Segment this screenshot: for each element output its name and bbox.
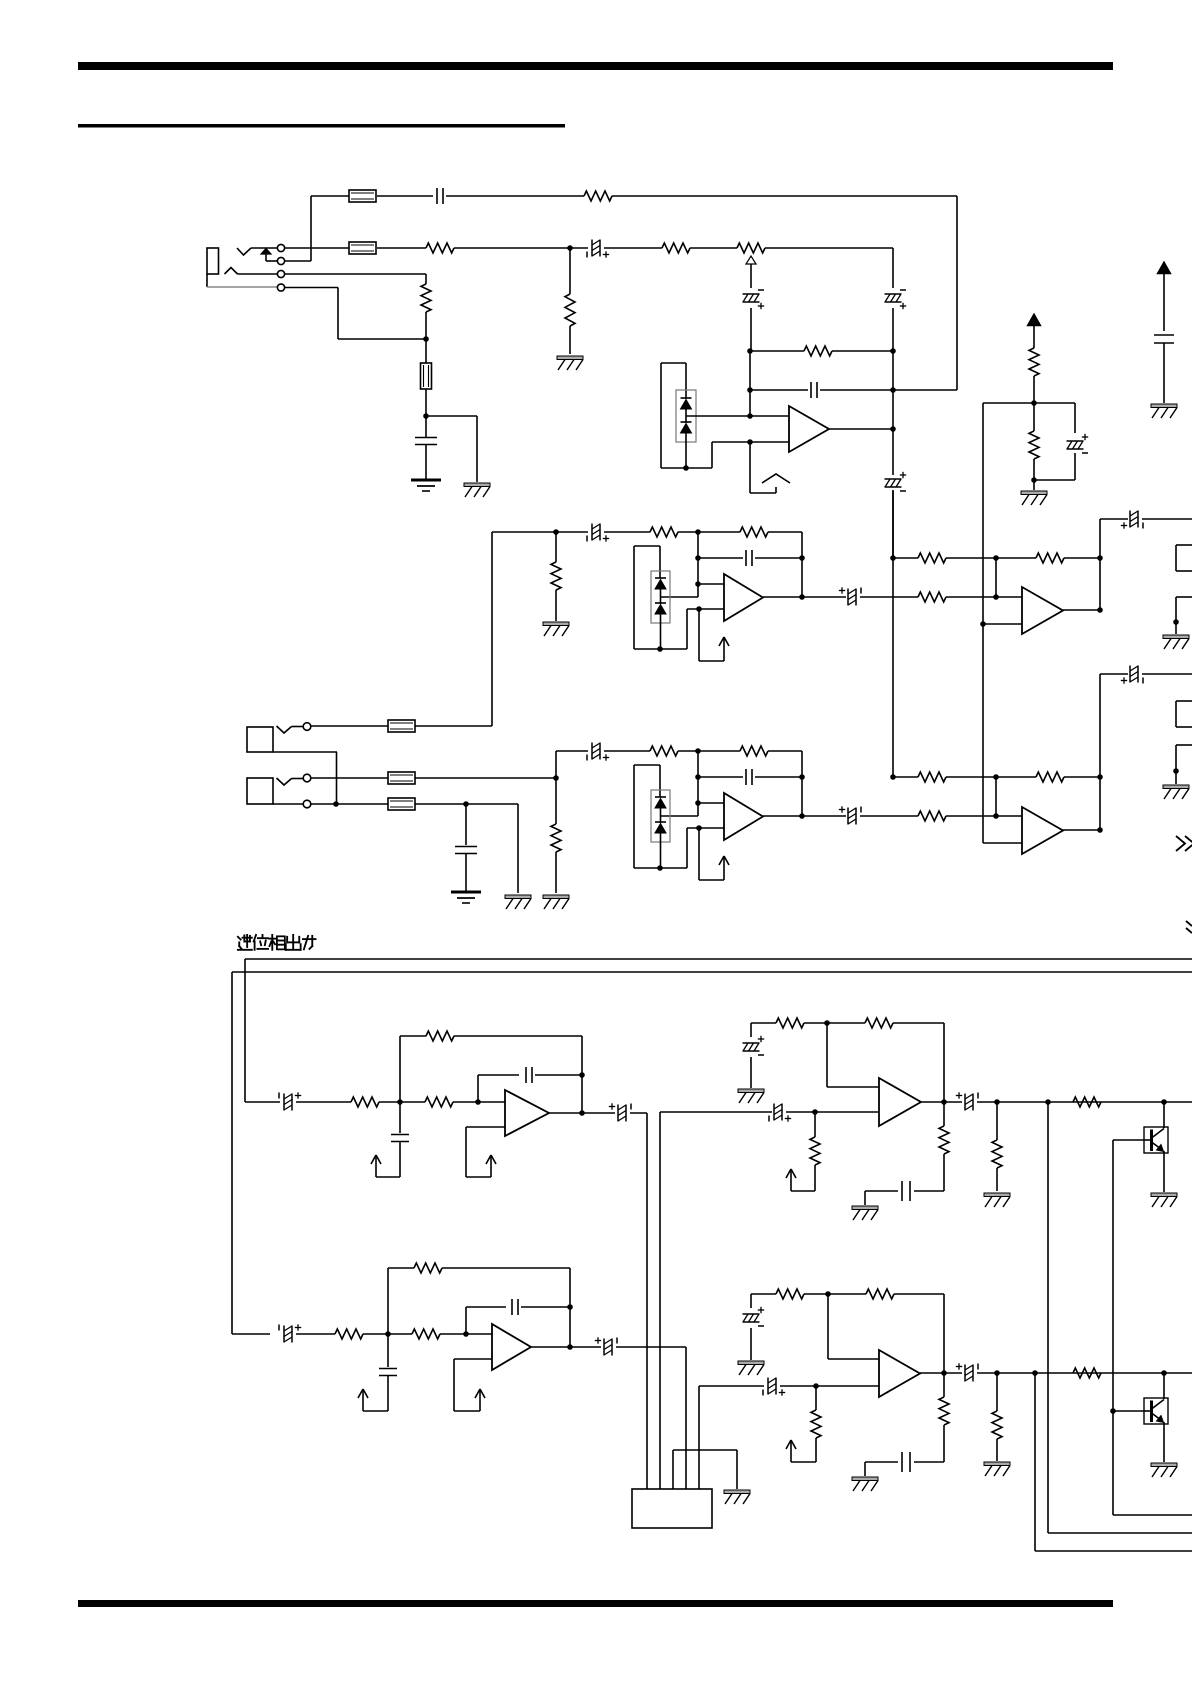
wire to right drop [612,195,957,197]
UL non-inverting wire [466,1126,505,1128]
stage2 op-amp [724,574,763,621]
resistor R4 to ground [569,248,571,294]
J1 terminal 2 [277,257,284,264]
mixerB op-amp U5 [1022,807,1063,854]
LL series resistor [412,1329,440,1339]
LR inverting input [827,1294,829,1359]
off-page chevrons [1176,836,1185,851]
shunt resistor [814,1112,816,1137]
node [333,801,339,807]
stage3 input resistor [650,746,678,756]
LR load resistor 1 [943,1373,945,1397]
node [813,1383,819,1389]
wire J1 t2 to upper row [285,260,311,262]
UR series resistor [1073,1097,1101,1107]
J3 tip lever [277,778,292,785]
stage3 diode tap [660,815,698,817]
UL op-amp U6 [505,1090,549,1136]
mute transistor Q1 [1163,1102,1165,1128]
node [1161,1099,1167,1105]
chassis ground [984,1193,1010,1197]
stage3 non-inverting input [696,825,702,831]
node [825,1291,831,1297]
node [890,774,896,780]
node [695,748,701,754]
node [553,529,559,535]
LL output capacitor (electrolytic) [603,1339,605,1356]
stage2 diode a [655,577,666,579]
capacitor C3 [425,416,427,437]
UL feedback capacitor [477,1075,479,1102]
node [1031,400,1037,406]
wire [604,247,662,249]
wire J1 t4 [285,287,338,289]
diode D2 [681,421,692,423]
UR output [921,1101,962,1103]
J1 tip switch arrow [261,249,271,255]
ground [557,356,583,360]
wire drop from VR1 corner [892,248,894,288]
UL output capacitor (electrolytic) [617,1105,619,1122]
UR op-amp U7 [879,1078,921,1126]
chassis ground [464,483,490,487]
J1 tip contact lever [237,248,251,255]
UR inverting input [826,1023,828,1087]
wire to connector pin 4 [685,1347,687,1489]
wire connector pin 2 riser [659,1112,661,1489]
edge ground stub 1 [1176,596,1192,598]
node [423,336,429,342]
ferrite bead FB6 [388,798,415,810]
chassis ground [852,1477,878,1481]
earth ground [411,479,441,482]
stage2 shunt resistor [555,532,557,562]
LL output [531,1346,601,1348]
J2 tip lever [277,726,292,733]
J1 terminal 1 [277,244,284,251]
left output capacitor (electrolytic) [1100,518,1128,520]
UL output [549,1112,615,1114]
wire [690,247,737,249]
stage2 input wire [492,531,588,533]
reference arrow [375,1155,377,1177]
connector CN1 [632,1489,712,1528]
node [553,775,559,781]
node [1161,1370,1167,1376]
wire [446,195,584,197]
node [1097,774,1103,780]
ferrite bead FB2 [349,242,376,254]
capacitor C2 (electrolytic) [591,240,593,257]
chassis ground [738,1089,764,1093]
ferrite bead FB1 [349,190,376,202]
J1 ring contact lever [225,268,238,275]
node [994,1370,1000,1376]
edge connector stub 1 [1176,544,1192,546]
non-inverting input wire [747,439,753,445]
LR op-amp U9 [879,1350,920,1397]
mixerB output [1063,829,1100,831]
feedback resistor R6 [747,348,753,354]
LR bias capacitor (electrolytic) [750,1294,752,1308]
node [463,801,469,807]
bypass capacitor C8 (electrolytic) [1034,402,1075,404]
wire J1 t3 [285,273,426,275]
shunt resistor [815,1386,817,1410]
chassis ground [738,1361,764,1365]
node [994,1099,1000,1105]
node [579,1072,585,1078]
wire [801,751,803,816]
input jack J3 body [247,778,273,804]
node [993,774,999,780]
wire [377,195,433,197]
wire [517,804,519,893]
capacitor C4 (electrolytic) [885,293,902,295]
stage2 inverting input [695,581,701,587]
wire [311,777,388,779]
mixerB second input resistor Rb3 [918,811,946,821]
J2 terminal 1 [303,723,311,731]
mixerA second input resistor Ra3 [918,592,946,602]
stage3 inverting input [695,800,701,806]
node [812,1109,818,1115]
coupling capacitor (electrolytic) [767,1378,769,1395]
stage3 diode limiter loop [634,764,660,766]
resistor R3 [662,243,690,253]
UL series resistor [425,1097,453,1107]
mute control line [1113,1139,1144,1141]
node [1097,555,1103,561]
off-page chevron fragment [1186,921,1192,926]
wire [415,803,518,805]
page top rule (thick) [78,62,1113,70]
mixerA input resistor Ra1 [893,557,918,559]
stage2 feedback resistor [740,527,768,537]
wire diode tap to inverting input [686,415,750,417]
node [890,426,896,432]
chassis ground [984,1462,1010,1466]
LL feedback resistor [387,1268,389,1334]
wire to connector pin 1 [646,1113,648,1489]
LL input capacitor (electrolytic) [232,1333,270,1335]
input jack J1 body [207,248,219,274]
resistor R5 [421,284,431,312]
stage2 output [763,596,846,598]
wire [749,390,751,416]
node [475,1099,481,1105]
ground [1021,491,1047,495]
node [397,1099,403,1105]
stage3 diode a [655,796,666,798]
node [1031,477,1037,483]
reference arrow [490,1155,492,1177]
LR output capacitor (electrolytic) [964,1365,966,1382]
supply arrow [1028,314,1041,326]
LR feedback resistor 1 [751,1293,776,1295]
earth ground [451,891,481,894]
stage2 non-inverting input [696,606,702,612]
wire [415,777,556,779]
VR1 wiper cap C5 [750,264,752,288]
wire up to stage 2 [415,725,492,727]
reference arrow [479,1389,481,1411]
chassis ground [1151,1193,1177,1197]
J1 terminal 3 [277,270,284,277]
stage3 output [763,815,846,817]
diode limiter D1/D2 loop [661,362,686,364]
resistor R1 [584,191,612,201]
capacitor C10 [465,804,467,845]
stage3 op-amp [724,793,763,840]
mixerA non-inverting input [980,621,986,627]
wire J2 sleeve link [273,751,337,753]
chassis ground [505,895,531,899]
node [747,413,753,419]
label: inverted-phase output (kanji) [238,935,316,950]
stage2 input resistor [650,527,678,537]
UR zobel capacitor [914,1190,944,1192]
wire [425,339,427,363]
bias rail vertical [982,403,984,843]
stage3 diode b [655,821,666,823]
chassis ground [852,1206,878,1210]
resistor R2 [426,243,454,253]
stage2 input capacitor (electrolytic) [591,524,593,541]
node [463,1331,469,1337]
wire drop to feedback cap row [956,196,958,390]
edge connector stub 2 [1176,700,1192,702]
stage2 output capacitor (electrolytic) [847,589,849,606]
inverted feed line B [232,971,1192,973]
stage2 diode limiter loop [634,545,660,547]
node [824,1020,830,1026]
stage3 reference arrow [698,828,700,880]
stage3 input capacitor (electrolytic) [591,743,593,760]
wire [311,803,388,805]
mute transistor Q2 [1113,1410,1144,1412]
wire connector pin 5 riser [698,1386,700,1489]
section title underline [78,124,565,128]
wire to corner [765,247,893,249]
capacitor C1 [436,188,438,204]
LL feedback capacitor [465,1307,467,1334]
UR load resistor 2 [996,1102,998,1140]
node [890,555,896,561]
wire [311,195,349,197]
supply arrow 2 [1158,262,1171,274]
wire [749,351,751,390]
potentiometer VR1 [737,243,765,253]
mixerA feedback resistor Ra2 [996,557,1036,559]
ferrite bead FB3 [421,363,432,389]
stage2 reference arrow [698,609,700,661]
output capacitor C7 (electrolytic) [892,429,894,475]
page bottom rule (thick) [78,1600,1113,1607]
node [695,529,701,535]
node [1045,1099,1051,1105]
chassis ground [724,1490,750,1494]
LL shunt capacitor [387,1334,389,1367]
mixerA output [1063,609,1100,611]
op-amp U1 [789,406,829,452]
inverted feed line A [245,958,1192,960]
wire [604,750,650,752]
reference arrow [790,1169,792,1191]
chassis ground [543,622,569,626]
diode D1 [681,397,692,399]
LR zobel capacitor [914,1461,944,1463]
UR feedback resistor 2 [865,1018,893,1028]
output line L drop [1047,1102,1049,1533]
node [1032,1370,1038,1376]
right output capacitor (electrolytic) [1100,673,1128,675]
stage2 diode b [655,602,666,604]
stage3 input riser [555,751,557,778]
resistor R7 [1029,348,1039,376]
stage3 feedback capacitor [695,774,701,780]
J1 terminal 4 [277,284,284,291]
UR load resistor 1 [943,1102,945,1126]
node [567,1304,573,1310]
stage3 shunt resistor [555,778,557,824]
UR feedback resistor 1 [751,1022,776,1024]
reference arrow [790,1440,792,1462]
chassis ground [1151,1463,1177,1467]
reference arrow [362,1389,364,1411]
chassis ground [543,895,569,899]
input jack J2 body [247,727,273,752]
edge ground stub 2 [1176,744,1192,746]
J3 terminal 2 [303,800,311,808]
LR load resistor 2 [996,1373,998,1411]
wire [604,531,650,533]
LR feedback resistor 2 [866,1289,894,1299]
LR output [920,1372,962,1374]
feedback capacitor C6 [747,387,753,393]
stage3 feedback resistor [740,746,768,756]
capacitor C9 [1154,334,1174,336]
wire to chassis ground [426,415,477,417]
node [993,555,999,561]
node [993,594,999,600]
reference symbol [749,442,751,493]
ground [1151,404,1177,408]
wire [377,247,426,249]
node [385,1331,391,1337]
output line R drop [1034,1373,1036,1551]
LR series resistor [1073,1368,1101,1378]
node [993,813,999,819]
mixerA op-amp U4 [1022,587,1063,634]
UL shunt capacitor [399,1102,401,1133]
UL feedback resistor [399,1036,401,1102]
wire [311,725,388,727]
wire [454,247,588,249]
stage3 output capacitor (electrolytic) [847,808,849,825]
ferrite bead FB5 [388,772,415,784]
LL non-inverting wire [454,1358,492,1360]
ferrite bead FB4 [388,720,415,732]
UR output capacitor (electrolytic) [964,1094,966,1111]
wire [801,532,803,597]
wire to bias rail [983,402,1034,404]
stage2 feedback capacitor [695,555,701,561]
mixerB input resistor Rb1 [893,776,918,778]
output wire [829,428,893,430]
node [423,413,429,419]
bus from stage1 output [892,490,894,777]
wire [425,389,427,416]
stage2 diode tap [660,596,698,598]
connector ground pin [673,1449,737,1451]
coupling capacitor (electrolytic) [773,1104,775,1121]
J3 terminal 1 [303,774,311,782]
UL input resistor [351,1097,379,1107]
mixerB non-inverting input [983,842,1022,844]
UR bias capacitor (electrolytic) [750,1023,752,1037]
LL input resistor [335,1329,363,1339]
node [567,245,573,251]
LL op-amp U8 [492,1324,531,1370]
resistor R8 [1033,403,1035,431]
mixerB feedback resistor Rb2 [996,776,1036,778]
UL input capacitor (electrolytic) [245,1101,280,1103]
wire J1 t1 [285,247,349,249]
